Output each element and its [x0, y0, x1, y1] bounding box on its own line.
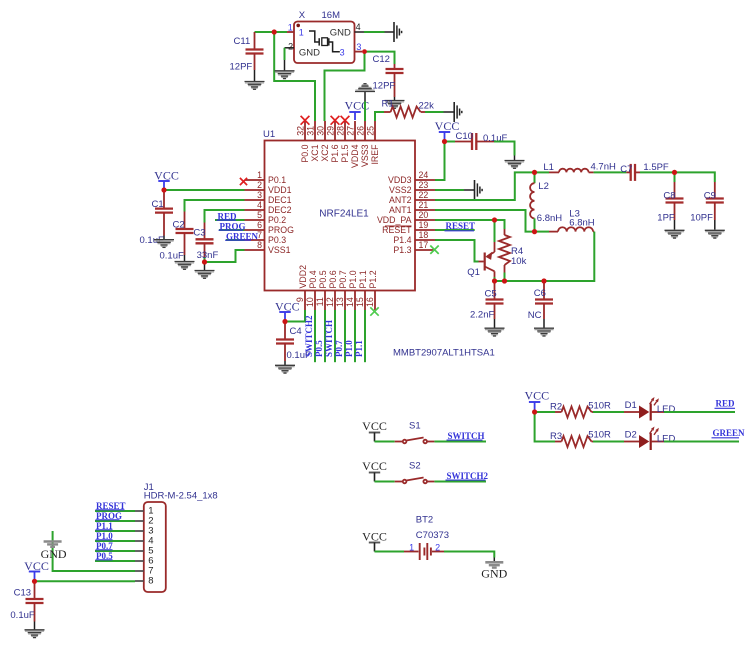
svg-text:VCC: VCC: [154, 168, 179, 182]
U1 pin 5 P0.2: [245, 219, 265, 221]
capacitor C12: [394, 64, 396, 69]
ground below C4: [275, 365, 295, 373]
power port VCC at S1: [369, 432, 380, 434]
wire VCC to R3 row: [535, 412, 555, 442]
svg-text:33nF: 33nF: [197, 250, 219, 261]
wire crystal pin2 to ground: [284, 48, 286, 60]
svg-text:LED: LED: [657, 433, 676, 444]
net label P1.0 at J1 pin 4: [95, 540, 135, 542]
svg-text:12PF: 12PF: [373, 81, 396, 92]
svg-text:C10: C10: [456, 131, 473, 142]
svg-text:P1.6: P1.6: [330, 144, 340, 162]
ground below C11: [245, 82, 265, 90]
svg-text:C4: C4: [290, 326, 302, 337]
svg-text:D1: D1: [625, 400, 637, 411]
svg-text:C3: C3: [193, 228, 205, 239]
net label P0.5 at J1 pin 6: [95, 560, 135, 562]
wire crystal pin3 down to U1 pin30 XC2: [325, 52, 365, 121]
svg-text:VDD3: VDD3: [388, 175, 412, 185]
svg-text:D2: D2: [625, 430, 637, 441]
net label GREEN at D2: [664, 441, 739, 443]
U1 pin 1 P0.1: [245, 179, 265, 181]
capacitor C5: [494, 281, 496, 300]
wire U1 pin26 VSS3 to ground: [364, 102, 366, 122]
svg-text:GND: GND: [481, 567, 507, 581]
U1 pin 4 DEC2: [245, 209, 265, 211]
wire VCC to U1 pin2: [164, 189, 245, 191]
J1 pin 1: [135, 510, 144, 512]
U1 pin 21 ANT1: [415, 209, 435, 211]
svg-text:8: 8: [148, 576, 153, 587]
svg-text:VCC: VCC: [362, 459, 387, 473]
svg-text:C6: C6: [534, 288, 546, 299]
svg-text:P0.7: P0.7: [334, 340, 344, 357]
svg-text:VSS2: VSS2: [389, 185, 412, 195]
wire U1 pin25 IREF to R1: [375, 112, 384, 121]
junction node C6 top: [541, 278, 546, 283]
svg-text:22: 22: [419, 190, 429, 200]
svg-text:L1: L1: [543, 162, 554, 173]
ground below crystal pin2: [275, 71, 295, 79]
J1 pin 3: [135, 530, 144, 532]
svg-text:21: 21: [419, 200, 429, 210]
svg-text:S2: S2: [409, 461, 421, 472]
no-connect X on U1 pin 28: [341, 116, 350, 125]
svg-text:NRF24LE1: NRF24LE1: [319, 209, 369, 220]
svg-text:C8: C8: [663, 190, 675, 201]
U1 pin 25 IREF: [374, 121, 376, 141]
svg-text:28: 28: [336, 126, 346, 136]
svg-text:VDD2: VDD2: [298, 265, 308, 289]
ground below C9: [705, 230, 725, 238]
junction node VDD2/C4: [282, 319, 287, 324]
wire U1 pin22 ANT2 to L1 node: [435, 172, 535, 200]
svg-text:VSS3: VSS3: [360, 144, 370, 167]
LED D1: [624, 411, 639, 413]
svg-text:3: 3: [257, 190, 262, 200]
capacitor C1: [163, 190, 165, 209]
wire U1 pin21 ANT1 to L2 bottom: [435, 210, 535, 232]
svg-text:C9: C9: [704, 190, 716, 201]
svg-text:6: 6: [257, 220, 262, 230]
junction node R4 bottom: [502, 278, 507, 283]
svg-text:C1: C1: [152, 199, 164, 210]
resistor R3: [555, 441, 562, 443]
power port VCC at U1 pin27 VDD4: [349, 111, 360, 113]
svg-text:NC: NC: [528, 310, 542, 321]
svg-text:10: 10: [305, 297, 315, 307]
crystal pin 4: [355, 31, 365, 33]
svg-text:6.8nH: 6.8nH: [569, 218, 594, 229]
ground below C5: [485, 328, 505, 336]
junction node VCC/C10: [442, 139, 447, 144]
ground below C1: [154, 240, 174, 248]
crystal X1 body: [294, 22, 355, 64]
svg-text:16: 16: [365, 297, 375, 307]
power port VCC at J1/C13: [29, 571, 40, 573]
junction node C13: [32, 579, 37, 584]
wire U1 pin23 VSS2 to ground: [435, 189, 464, 191]
capacitor C7: [626, 171, 630, 173]
svg-text:GND: GND: [330, 27, 351, 38]
svg-text:13: 13: [335, 297, 345, 307]
svg-text:XC1: XC1: [310, 144, 320, 161]
power port VCC at C10: [439, 131, 450, 133]
wire VCC to R2: [535, 411, 555, 413]
switch S2: [395, 481, 403, 483]
svg-text:L2: L2: [538, 181, 549, 192]
svg-text:0.1uF: 0.1uF: [160, 251, 184, 262]
svg-text:GREEN: GREEN: [713, 428, 746, 438]
svg-text:23: 23: [419, 180, 429, 190]
junction node below C3: [202, 259, 207, 264]
wire R2 to D1: [593, 411, 624, 413]
svg-text:P1.4: P1.4: [393, 235, 411, 245]
power port GND at BT2: [485, 562, 503, 567]
svg-text:5: 5: [257, 210, 262, 220]
U1 pin 6 PROG: [245, 229, 265, 231]
U1 pin 8 VSS1: [245, 249, 265, 251]
U1 pin 24 VDD3: [415, 179, 435, 181]
svg-text:P1.0: P1.0: [344, 340, 354, 357]
wire U1 pin24 VDD3 to VCC junction: [435, 142, 445, 181]
svg-text:P0.1: P0.1: [268, 175, 286, 185]
capacitor C2: [184, 212, 186, 230]
wire U1 pin9 VDD2 to VCC: [285, 310, 305, 322]
svg-text:VCC: VCC: [524, 389, 549, 403]
wire C7 to C8 node: [640, 171, 675, 173]
svg-text:P0.4: P0.4: [308, 270, 318, 288]
wire BT2 to GND: [444, 552, 494, 558]
U1 pin 3 DEC1: [245, 199, 265, 201]
svg-text:P1.3: P1.3: [393, 245, 411, 255]
svg-text:1PF: 1PF: [657, 212, 675, 223]
wire crystal pin4 to ground: [364, 31, 385, 33]
inductor L3: [535, 231, 550, 233]
junction node L1/L2: [532, 170, 537, 175]
ground below C3: [204, 262, 206, 271]
svg-text:18: 18: [419, 230, 429, 240]
svg-text:2: 2: [257, 180, 262, 190]
resistor R2: [555, 411, 562, 413]
capacitor C3: [204, 223, 206, 240]
svg-text:SWITCH: SWITCH: [324, 320, 334, 357]
net label P1.0 on U1 pin wire: [354, 310, 356, 362]
crystal pin 2: [285, 47, 295, 49]
ground below C8: [665, 230, 685, 238]
junction node crystal pin3: [362, 49, 367, 54]
svg-text:VDD_PA: VDD_PA: [377, 215, 412, 225]
power port VCC at U1 VDD1: [158, 180, 169, 182]
svg-text:24: 24: [419, 170, 429, 180]
U1 pin 30 XC2: [324, 121, 326, 141]
svg-text:VCC: VCC: [362, 419, 387, 433]
wire C11 to crystal pin1 net (XC1 node): [255, 31, 288, 33]
LED D2: [624, 441, 639, 443]
J1 pin 5: [135, 550, 144, 552]
U1 pin 12 P0.6: [334, 291, 336, 311]
capacitor C8: [674, 172, 676, 182]
crystal pin 3: [355, 51, 363, 53]
svg-text:S1: S1: [409, 421, 421, 432]
U1 pin 28 P1.5: [344, 121, 346, 141]
svg-text:VCC: VCC: [362, 530, 387, 544]
svg-text:510R: 510R: [588, 401, 611, 412]
svg-text:12PF: 12PF: [230, 62, 253, 73]
crystal pin 1: [287, 31, 294, 33]
no-connect X on U1 pin 29: [331, 116, 340, 125]
switch S1: [395, 441, 403, 443]
transistor Q1: [494, 220, 496, 242]
svg-text:P1.0: P1.0: [348, 270, 358, 288]
svg-text:P1.2: P1.2: [368, 270, 378, 288]
svg-text:3: 3: [340, 48, 345, 58]
svg-text:R2: R2: [550, 402, 562, 413]
svg-text:C12: C12: [373, 54, 390, 65]
power port GND at J1: [44, 542, 62, 547]
svg-text:VCC: VCC: [24, 559, 49, 573]
svg-text:IREF: IREF: [370, 144, 380, 165]
U1 pin 13 P0.7: [344, 291, 346, 311]
junction node Q1 collector: [492, 278, 497, 283]
svg-text:C2: C2: [173, 220, 185, 231]
svg-text:25: 25: [366, 126, 376, 136]
svg-text:14: 14: [345, 297, 355, 307]
svg-text:VDD1: VDD1: [268, 185, 292, 195]
inverted ground above U1 pin26: [355, 84, 375, 92]
U1 pin 19 RESET: [415, 229, 435, 231]
svg-text:1.5PF: 1.5PF: [643, 162, 669, 173]
U1 pin 31 XC1: [314, 121, 316, 141]
svg-text:P1.5: P1.5: [340, 144, 350, 162]
net label P1.1 on U1 pin wire: [364, 310, 366, 362]
svg-text:6.8nH: 6.8nH: [537, 213, 562, 224]
J1 pin 7: [135, 570, 144, 572]
svg-text:HDR-M-2.54_1x8: HDR-M-2.54_1x8: [144, 491, 218, 502]
inductor L2: [534, 172, 536, 183]
svg-text:2: 2: [435, 543, 440, 553]
U1 pin 32 P0.0: [304, 121, 306, 141]
svg-text:20: 20: [419, 210, 429, 220]
svg-text:LED: LED: [657, 404, 676, 415]
U1 pin 27 VDD4: [354, 121, 356, 141]
svg-text:SWITCH: SWITCH: [448, 431, 485, 441]
wire R3 to D2: [593, 441, 624, 443]
svg-text:RESET: RESET: [446, 221, 476, 231]
svg-text:1: 1: [288, 23, 293, 33]
net label PROG at J1 pin 2: [95, 520, 135, 522]
capacitor C4: [284, 322, 286, 340]
svg-text:27: 27: [346, 126, 356, 136]
resistor R4: [504, 229, 506, 235]
svg-text:XC2: XC2: [320, 144, 330, 161]
ground below C6: [534, 328, 554, 336]
net label GREEN on U1 pin7: [226, 239, 245, 241]
svg-text:C5: C5: [485, 289, 497, 300]
svg-text:17: 17: [419, 240, 429, 250]
svg-text:16M: 16M: [322, 10, 341, 21]
svg-text:4.7nH: 4.7nH: [591, 161, 616, 172]
ground below C12: [385, 101, 405, 109]
wire VCC to J1 pin8: [35, 580, 136, 582]
svg-text:R1: R1: [382, 99, 394, 110]
U1 pin 10 P0.4: [314, 291, 316, 311]
wire VCC to BT2: [375, 551, 405, 553]
U1 pin 20 VDD_PA: [415, 219, 435, 221]
svg-text:Q1: Q1: [467, 267, 480, 278]
crystal X1 glyph: [309, 31, 319, 42]
net label SWITCH on U1 pin wire: [334, 310, 336, 362]
wire crystal pin3 to C12: [365, 52, 395, 64]
svg-text:19: 19: [419, 220, 429, 230]
svg-text:P1.1: P1.1: [354, 340, 364, 357]
junction node L2/L3: [532, 229, 537, 234]
U1 pin 7 P0.3: [245, 239, 265, 241]
wire U1 pin4 DEC2 to C3: [205, 210, 245, 223]
wire L3 to C5/C6 rail: [495, 232, 595, 281]
svg-text:30: 30: [316, 126, 326, 136]
ground below C10: [505, 161, 525, 169]
U1 pin 2 VDD1: [245, 189, 265, 191]
svg-text:RED: RED: [716, 399, 736, 409]
net label RESET on U1 pin19: [435, 229, 475, 231]
svg-text:P0.0: P0.0: [300, 144, 310, 162]
svg-text:22k: 22k: [419, 101, 435, 112]
svg-text:3: 3: [356, 42, 361, 52]
svg-text:C11: C11: [234, 36, 251, 47]
svg-text:P0.5: P0.5: [314, 340, 324, 357]
capacitor C6: [543, 281, 545, 300]
svg-text:P1.1: P1.1: [358, 270, 368, 288]
U1 pin 9 VDD2: [304, 291, 306, 311]
net label P0.5 on U1 pin wire: [324, 310, 326, 362]
U1 pin 22 ANT2: [415, 199, 435, 201]
svg-text:P0.7: P0.7: [338, 270, 348, 288]
wire C10 to ground: [494, 142, 515, 156]
wire U1 pin8 VSS1 to C3 node: [205, 250, 245, 262]
capacitor C13: [34, 581, 36, 599]
junction node C8: [672, 170, 677, 175]
crystal pin1 marker dot: [296, 24, 300, 28]
net label RED at D1: [664, 411, 735, 413]
svg-text:P0.5: P0.5: [318, 270, 328, 288]
svg-text:1: 1: [299, 28, 304, 38]
wire U1 pin18 P1.4 to Q1 base: [435, 240, 479, 262]
net label RESET at J1 pin 1: [95, 510, 135, 512]
wire L1 to C7: [594, 171, 627, 173]
svg-text:29: 29: [326, 126, 336, 136]
svg-text:DEC2: DEC2: [268, 205, 292, 215]
J1 pin 4: [135, 540, 144, 542]
no-connect X on U1 pin 17: [430, 246, 438, 254]
svg-text:2.2nF: 2.2nF: [470, 310, 494, 321]
svg-text:VCC: VCC: [275, 299, 300, 313]
capacitor C11: [254, 32, 256, 50]
U1 pin 29 P1.6: [334, 121, 336, 141]
ground below C13: [25, 630, 45, 638]
U1 pin 26 VSS3: [364, 121, 366, 141]
IC U1 body: [265, 141, 416, 291]
capacitor C9: [714, 182, 716, 199]
svg-text:32: 32: [296, 126, 306, 136]
svg-text:12: 12: [325, 297, 335, 307]
svg-text:0.1uF: 0.1uF: [10, 610, 34, 621]
battery BT2: [404, 551, 419, 553]
no-connect X on U1 pin 1: [240, 178, 247, 185]
net label RED on U1 pin5: [215, 219, 245, 221]
svg-text:10k: 10k: [511, 256, 527, 267]
junction node VDD_PA: [492, 217, 497, 222]
net label PROG on U1 pin6: [219, 229, 245, 231]
ground right of crystal pin4: [394, 22, 402, 42]
ground right of U1 pin23: [475, 180, 483, 200]
ground below C2: [175, 262, 195, 270]
svg-text:U1: U1: [263, 129, 275, 140]
svg-text:26: 26: [356, 126, 366, 136]
no-connect X on U1 pin 16: [370, 307, 378, 315]
svg-text:P0.6: P0.6: [328, 270, 338, 288]
power port VCC at BT2: [369, 542, 380, 544]
wire J1 pin7 to GND: [53, 531, 135, 571]
svg-text:PROG: PROG: [268, 225, 294, 235]
junction node LED VCC: [532, 409, 537, 414]
svg-text:GND: GND: [299, 47, 320, 58]
wire VCC junction to C10: [445, 141, 456, 143]
wire U1 pin20 VDD_PA to Q1/R4: [435, 220, 505, 229]
svg-text:1: 1: [257, 170, 262, 180]
svg-text:C13: C13: [14, 588, 31, 599]
connector J1 body: [144, 502, 166, 592]
power port VCC at LED block: [529, 401, 540, 403]
no-connect X on U1 pin 32: [301, 116, 310, 125]
J1 pin 2: [135, 520, 144, 522]
U1 pin 18 P1.4: [415, 239, 435, 241]
svg-text:31: 31: [306, 126, 316, 136]
svg-text:510R: 510R: [588, 430, 611, 441]
svg-text:10PF: 10PF: [690, 212, 713, 223]
svg-text:2: 2: [288, 42, 293, 52]
power port VCC at U1 VDD2: [279, 311, 290, 313]
wire C8 node to C9: [675, 172, 715, 182]
U1 pin 14 P1.0: [354, 291, 356, 311]
svg-text:C70373: C70373: [416, 530, 449, 541]
wire S2 to net label: [434, 481, 486, 483]
svg-text:R3: R3: [550, 431, 562, 442]
ground right of R1: [454, 102, 462, 122]
svg-text:11: 11: [315, 297, 325, 306]
svg-text:SWITCH2: SWITCH2: [304, 315, 314, 357]
wire R1 to ground: [425, 111, 444, 113]
net label P1.1 at J1 pin 3: [95, 530, 135, 532]
svg-text:VSS1: VSS1: [268, 245, 291, 255]
svg-text:P0.3: P0.3: [268, 235, 286, 245]
svg-text:C7: C7: [620, 164, 632, 175]
svg-text:X: X: [299, 10, 306, 21]
net label SWITCH2 on U1 pin wire: [314, 310, 316, 362]
inductor L1: [535, 171, 550, 173]
svg-text:15: 15: [355, 297, 365, 307]
svg-text:ANT2: ANT2: [389, 195, 412, 205]
capacitor C10: [455, 141, 472, 143]
J1 pin 6: [135, 560, 144, 562]
svg-text:8: 8: [257, 240, 262, 250]
svg-text:ANT1: ANT1: [389, 205, 412, 215]
junction node VDD1/C1: [161, 187, 166, 192]
wire junction down to U1 pin31 XC1: [274, 32, 315, 121]
U1 pin 16 P1.2: [374, 291, 376, 311]
wire VCC to S1: [375, 441, 395, 443]
svg-text:1: 1: [409, 543, 414, 553]
